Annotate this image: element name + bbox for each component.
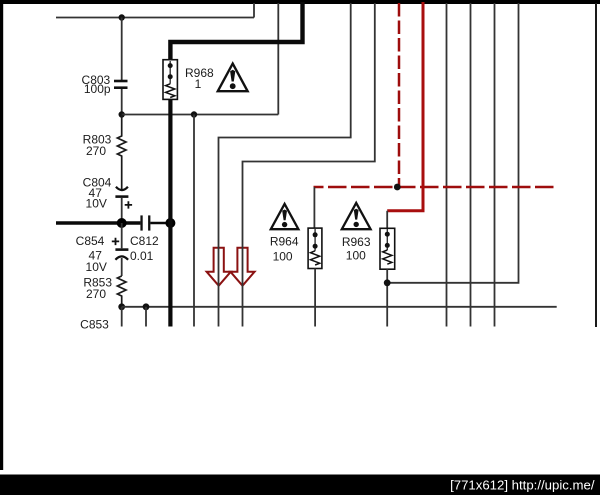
warning triangle near R968 <box>218 64 248 92</box>
wire nested B: from top x=374.8 to down x=242.5 <box>243 3 375 327</box>
wire stub x=146 down <box>145 307 147 327</box>
svg-text:1: 1 <box>195 77 202 91</box>
node junction left of horizontal bus <box>119 111 125 117</box>
wire C804 to thick node <box>121 198 123 223</box>
dashed red horizontal line <box>314 186 557 189</box>
left border line <box>0 0 3 470</box>
capacitor C854 <box>112 238 129 260</box>
svg-text:100: 100 <box>346 248 366 262</box>
svg-text:[771x612] http://upic.me/: [771x612] http://upic.me/ <box>450 478 595 493</box>
node junction at C803 top <box>119 14 125 20</box>
R803 label <box>83 132 112 157</box>
C803 value label <box>82 73 111 96</box>
svg-text:C812: C812 <box>130 234 159 248</box>
wire C803 to node <box>121 89 123 115</box>
wire C854 top lead <box>121 223 123 248</box>
resistor R964 (boxed) <box>308 228 322 268</box>
capacitor C803 <box>114 80 128 89</box>
node junction at x=194 <box>191 111 197 117</box>
wire vertical x=194 down <box>193 115 195 327</box>
svg-text:10V: 10V <box>86 260 107 274</box>
svg-text:R963: R963 <box>342 235 371 249</box>
svg-text:100: 100 <box>273 249 293 263</box>
wire x=121.7 down to crop <box>121 307 123 327</box>
resistor R803 <box>117 115 126 191</box>
top border bar <box>0 0 600 4</box>
wire top-left horizontal <box>56 17 254 19</box>
svg-text:100p: 100p <box>84 82 111 96</box>
resistor R853 <box>117 276 126 307</box>
wire nested A: from top x=350.7 to down x=218.5 <box>219 3 351 327</box>
thick wire left at y=223 <box>56 221 140 224</box>
node big junction x=121.7 <box>117 218 127 228</box>
svg-text:270: 270 <box>86 287 106 301</box>
solid red wire <box>387 2 423 211</box>
wire stub up to top bar <box>253 3 255 18</box>
wire vertical x=278 up to top <box>277 3 279 115</box>
R968 label <box>185 66 214 91</box>
C804 label <box>83 175 112 210</box>
svg-text:R964: R964 <box>270 234 299 248</box>
capacitor C812 <box>140 215 150 230</box>
red hollow arrow left <box>207 248 231 286</box>
warning triangle near R963 <box>342 203 371 229</box>
svg-text:270: 270 <box>86 144 106 158</box>
wire R963 bottom lead <box>386 269 388 326</box>
C854 label <box>76 234 107 274</box>
wire C854 to R853 <box>121 258 123 276</box>
resistor R963 (boxed) <box>380 228 395 269</box>
svg-text:0.01: 0.01 <box>130 249 154 263</box>
svg-text:10V: 10V <box>86 197 107 211</box>
node junction x=121.7 bottom bus <box>118 303 125 310</box>
svg-text:C854: C854 <box>76 234 105 248</box>
thick wire from top to R968 <box>170 2 302 60</box>
svg-text:C853: C853 <box>80 317 109 331</box>
wire vertical x=494.5 <box>494 3 496 327</box>
capacitor C804 <box>115 187 132 209</box>
wire C803 branch upper <box>121 18 123 81</box>
R963 label <box>342 235 371 262</box>
node big junction x=170.4 <box>165 218 175 228</box>
resistor R968 (fusible, boxed) <box>163 60 177 100</box>
wire horizontal y=114.5 <box>122 114 279 116</box>
wire R964 bottom lead <box>314 269 316 327</box>
R964 label <box>270 234 299 263</box>
dashed red vertical line <box>398 3 401 187</box>
warning triangle near R964 <box>271 204 299 229</box>
R853 label <box>83 275 112 301</box>
wire R964 top lead <box>313 187 315 228</box>
right border line <box>595 3 597 327</box>
thick wire below R968 <box>168 99 172 326</box>
wire bottom bus y=306.8 <box>122 306 557 308</box>
node junction on dashed cross <box>394 184 401 191</box>
wire vertical x=518.5 with bend to R963 <box>387 3 518 283</box>
wire vertical x=446.5 <box>446 3 448 327</box>
node junction R963 bottom <box>384 279 391 286</box>
red hollow arrow right <box>230 248 254 286</box>
C812 label <box>130 234 159 263</box>
node junction x=146 <box>143 303 150 310</box>
watermark bar <box>0 475 600 495</box>
wire C812 to thick vertical <box>150 222 170 225</box>
wire R963 top lead (from red) <box>386 211 388 229</box>
wire vertical x=470.5 <box>470 3 472 327</box>
